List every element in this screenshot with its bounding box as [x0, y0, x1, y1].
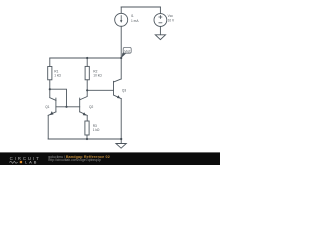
svg-text:10 kΩ: 10 kΩ — [93, 73, 102, 77]
svg-text:Q2: Q2 — [89, 105, 93, 109]
svg-text:LAB: LAB — [25, 159, 38, 164]
svg-text:Vref: Vref — [124, 49, 130, 53]
svg-text:Q1: Q1 — [45, 105, 49, 109]
svg-text:http://circuitlab.com/c5ge7qbb: http://circuitlab.com/c5ge7qbbnq4p — [48, 158, 101, 162]
svg-text:Q3: Q3 — [122, 89, 126, 93]
svg-text:Vcc: Vcc — [168, 14, 174, 18]
svg-text:1 mA: 1 mA — [131, 19, 139, 23]
svg-text:10 V: 10 V — [168, 19, 175, 23]
svg-text:1 kΩ: 1 kΩ — [93, 128, 100, 132]
svg-text:I1: I1 — [131, 14, 134, 18]
svg-text:1 kΩ: 1 kΩ — [54, 73, 61, 77]
